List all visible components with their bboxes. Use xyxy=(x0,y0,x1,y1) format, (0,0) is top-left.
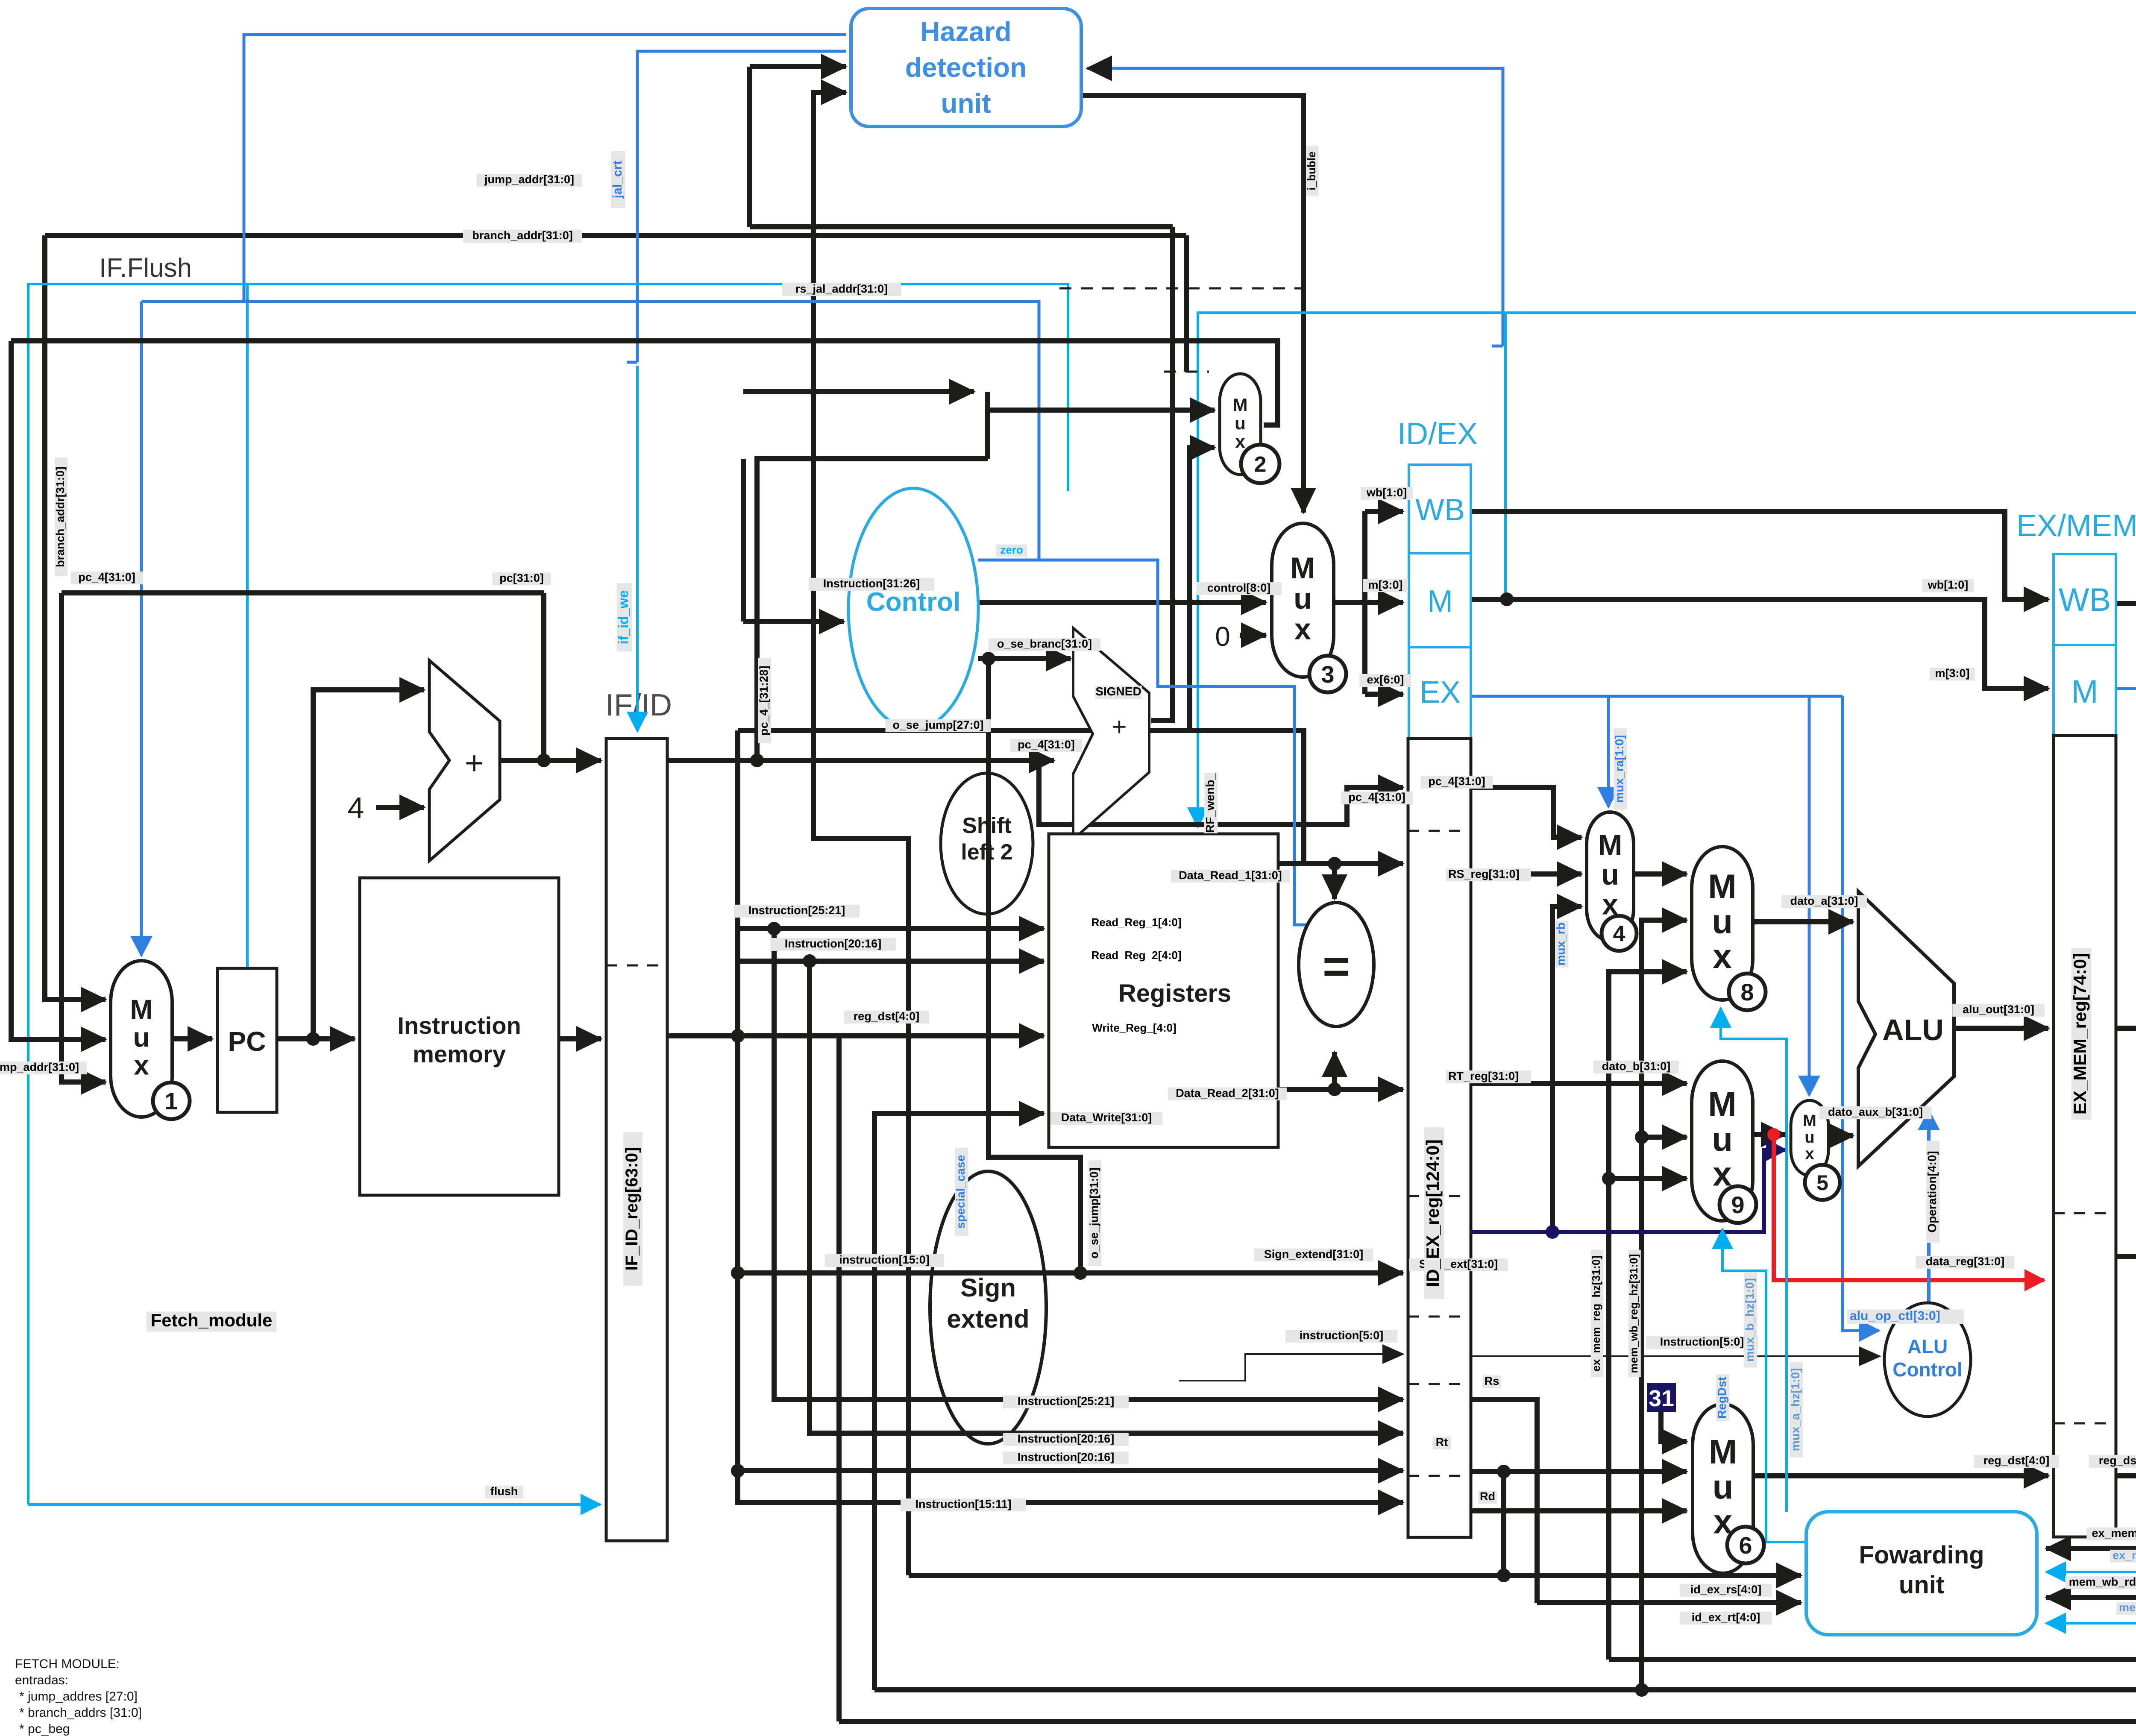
svg-text:jump_addr[31:0]: jump_addr[31:0] xyxy=(484,173,574,186)
svg-text:FETCH MODULE:: FETCH MODULE: xyxy=(15,1657,120,1671)
wire blue to Mux5 top xyxy=(1808,696,1811,1095)
svg-text:=: = xyxy=(1323,940,1350,993)
node dot 1727 y3443 xyxy=(731,1464,745,1478)
label Sign_extend xyxy=(1254,1248,1373,1261)
svg-text:* pc_beg: * pc_beg xyxy=(19,1722,70,1736)
wire Mux5 out to ALU xyxy=(1828,1133,1853,1138)
svg-text:4: 4 xyxy=(348,791,364,824)
wire cyan tap to ID/EX M y1403 xyxy=(1504,313,1507,596)
label mem_wb_rd xyxy=(2065,1575,2136,1589)
svg-text:Rd: Rd xyxy=(1480,1490,1495,1503)
svg-text:if_id_we: if_id_we xyxy=(616,590,631,644)
node branch label xyxy=(463,229,582,243)
svg-text:Instruction[20:16]: Instruction[20:16] xyxy=(785,937,882,950)
label wb idex xyxy=(1361,486,1413,500)
svg-text:pc_4[31:0]: pc_4[31:0] xyxy=(1018,738,1075,751)
svg-text:reg_dst[4:0]: reg_dst[4:0] xyxy=(2099,1454,2136,1467)
text Fetch_module xyxy=(147,1310,276,1332)
wire dr1 down to equals xyxy=(1332,864,1337,899)
label Rd xyxy=(1478,1490,1496,1504)
svg-text:i_buble: i_buble xyxy=(1305,151,1318,190)
svg-text:Operation[4:0]: Operation[4:0] xyxy=(1925,1151,1939,1232)
wire ex into EX box xyxy=(1365,692,1403,697)
svg-text:x: x xyxy=(134,1050,149,1081)
box WB idex xyxy=(1409,465,1471,553)
label Data_Read_2 xyxy=(1168,1087,1287,1100)
wire RS_reg to Mux4 xyxy=(1471,871,1581,877)
wire cyan into PC top xyxy=(246,284,249,967)
label id_ex_rt xyxy=(1680,1611,1772,1625)
alu shape xyxy=(1858,891,1954,1166)
svg-text:mem_wb_rd[4:0]: mem_wb_rd[4:0] xyxy=(2069,1575,2136,1588)
svg-text:detection: detection xyxy=(905,52,1027,83)
svg-text:pc_4[31:0]: pc_4[31:0] xyxy=(1428,775,1485,788)
fetch module text block xyxy=(15,1657,142,1736)
label ex_mem_wr_en xyxy=(2110,1549,2136,1563)
label pc[31:0] xyxy=(492,572,551,585)
wire Data_Read_2 xyxy=(1278,1087,1403,1092)
label m long xyxy=(1930,667,1975,680)
node dot navy join xyxy=(1546,1225,1559,1239)
wire Data_Read_1 xyxy=(1278,861,1403,866)
node dot pc out xyxy=(306,1032,320,1046)
label mem_wb_reg_hz xyxy=(1627,1250,1641,1378)
svg-text:data_reg[31:0]: data_reg[31:0] xyxy=(1926,1255,2005,1268)
svg-text:* branch_addrs [31:0]: * branch_addrs [31:0] xyxy=(19,1706,142,1720)
label Data_Write xyxy=(1050,1111,1163,1125)
svg-text:ID_EX_reg[124:0]: ID_EX_reg[124:0] xyxy=(1423,1139,1443,1287)
svg-text:Registers: Registers xyxy=(1118,979,1231,1007)
wire Operation from ALU Control xyxy=(1927,1111,1931,1303)
label Instruction 25:21 low xyxy=(1003,1395,1129,1408)
svg-text:EX_MEM_reg[74:0]: EX_MEM_reg[74:0] xyxy=(2070,953,2090,1114)
svg-text:u: u xyxy=(1713,1468,1734,1506)
sign extend ellipse xyxy=(930,1171,1046,1444)
svg-text:WB: WB xyxy=(1415,493,1465,527)
wire busC mem_wb_rd y4030 xyxy=(839,1719,2136,1724)
wire Instruction 25:21 read reg 1 xyxy=(739,926,1044,931)
svg-text:Rt: Rt xyxy=(1436,1436,1448,1449)
wire rs_jal lower run y551 xyxy=(45,233,1186,238)
svg-text:Control: Control xyxy=(1892,1358,1963,1381)
wire MEMWB reg_dst out xyxy=(2046,1476,2136,1598)
svg-text:M: M xyxy=(130,994,153,1025)
wire red data_reg xyxy=(1774,1135,2044,1280)
svg-text:x: x xyxy=(1805,1145,1814,1163)
svg-text:2: 2 xyxy=(1254,452,1267,477)
wire id_ex_rt to forwarding xyxy=(1537,1600,1801,1605)
wire m long to EX/MEM xyxy=(1471,599,2048,689)
label branch_addr vertical xyxy=(54,457,67,576)
wire Mux4 third input xyxy=(1552,906,1581,1232)
svg-text:instruction[15:0]: instruction[15:0] xyxy=(839,1253,930,1266)
wire RT_reg to Mux9 xyxy=(1471,1081,1687,1086)
label Instruction 25:21 top xyxy=(734,904,860,918)
wire 3766 to Mux9 in3 xyxy=(1609,1176,1687,1181)
label dato_aux_b xyxy=(1819,1106,1932,1119)
svg-text:Instruction[31:26]: Instruction[31:26] xyxy=(823,577,920,590)
svg-text:mux_rb: mux_rb xyxy=(1554,922,1567,965)
wire pc_4 branch down to ID_EX xyxy=(1039,760,1403,824)
label pc_4_[31:28] xyxy=(757,658,771,743)
label Instruction 20:16 low2 xyxy=(1003,1451,1129,1464)
label mux_rb xyxy=(1554,921,1568,967)
svg-text:pc_4[31:0]: pc_4[31:0] xyxy=(1348,791,1405,803)
wire o_se_jump path xyxy=(989,659,1080,1273)
svg-text:ex_mem_wr_en: ex_mem_wr_en xyxy=(2113,1549,2136,1562)
svg-text:mem_wb_wr_en: mem_wb_wr_en xyxy=(2119,1601,2136,1614)
wire rs_jal right vertical x2777 xyxy=(1184,235,1189,372)
svg-text:dato_b[31:0]: dato_b[31:0] xyxy=(1602,1060,1671,1073)
wire Mux6 out reg_dst xyxy=(1753,1473,2048,1478)
svg-text:Instruction[25:21]: Instruction[25:21] xyxy=(1018,1395,1115,1408)
svg-text:special_case: special_case xyxy=(954,1155,967,1229)
const 31 box xyxy=(1647,1383,1676,1412)
registers box rect xyxy=(1049,834,1278,1147)
wire wb into WB box xyxy=(1365,509,1403,514)
label wb long xyxy=(1922,578,1974,592)
mux Mux5 xyxy=(1791,1100,1840,1200)
label jump_addr floating xyxy=(477,173,582,187)
register PC xyxy=(217,968,277,1112)
label reg_dst near registers xyxy=(844,1010,929,1023)
svg-text:left 2: left 2 xyxy=(961,840,1012,865)
wire Mux8 out to ALU xyxy=(1753,919,1853,924)
label Data_Read_1 xyxy=(1171,869,1290,883)
wire 0 into Mux3 xyxy=(1240,633,1266,638)
svg-text:rs_jal_addr[31:0]: rs_jal_addr[31:0] xyxy=(795,282,888,295)
wire adder output to IF_ID xyxy=(500,758,601,763)
wire instruction15 sign extend y2980 xyxy=(738,1270,1403,1276)
svg-text:x: x xyxy=(1713,937,1732,975)
label Instruction 31:26 xyxy=(809,577,934,591)
svg-text:u: u xyxy=(1712,1120,1733,1158)
label dato_b xyxy=(1593,1060,1679,1073)
svg-text:pc[31:0]: pc[31:0] xyxy=(499,572,544,584)
svg-text:+: + xyxy=(1112,713,1127,741)
node dot 1892 xyxy=(803,954,816,968)
text Shift left 2 xyxy=(961,813,1012,865)
label special_case xyxy=(954,1148,968,1236)
svg-text:9: 9 xyxy=(1731,1191,1744,1218)
svg-text:Sign_extend[31:0]: Sign_extend[31:0] xyxy=(1264,1248,1364,1261)
label Read_Reg_1 xyxy=(1091,916,1182,929)
wire dashed y870 xyxy=(1164,371,1209,373)
svg-text:Instruction[5:0]: Instruction[5:0] xyxy=(1660,1335,1744,1348)
wire rt down to id_ex_rs bus xyxy=(1501,1472,1506,1575)
svg-text:RS_reg[31:0]: RS_reg[31:0] xyxy=(1448,868,1520,880)
svg-text:8: 8 xyxy=(1740,979,1754,1006)
svg-text:wb[1:0]: wb[1:0] xyxy=(1366,486,1407,499)
label ex idex xyxy=(1359,673,1411,687)
wire 4 into adder xyxy=(376,805,424,810)
label alu_op_ctl xyxy=(1847,1309,1964,1324)
wire vert 1740 xyxy=(741,459,746,622)
wire HDU output i_buble xyxy=(1081,96,1303,513)
svg-text:x: x xyxy=(1294,612,1311,645)
label instruction 5:0 xyxy=(1285,1329,1398,1343)
box WB exmem xyxy=(2054,554,2116,645)
wire Instruction 31:26 to Control xyxy=(743,619,844,624)
label Instruction 20:16 top xyxy=(770,937,896,951)
mux Mux3 xyxy=(1272,523,1346,692)
svg-text:x: x xyxy=(1235,431,1245,452)
wire id_ex_rs bus xyxy=(909,1573,1801,1578)
wire EXMEM WB out to MEMWB WB xyxy=(2116,604,2136,689)
label ID_EX_reg xyxy=(1423,1127,1444,1299)
svg-text:Hazard: Hazard xyxy=(920,16,1011,47)
wire jump_addr bus y798 xyxy=(11,341,1278,425)
wire Mux9 out to Mux5 xyxy=(1753,1132,1786,1137)
node dot busA tap xyxy=(1635,1683,1649,1697)
svg-text:alu_out[31:0]: alu_out[31:0] xyxy=(1963,1003,2034,1016)
svg-text:Read_Reg_2[4:0]: Read_Reg_2[4:0] xyxy=(1091,949,1182,962)
svg-text:M: M xyxy=(1708,868,1737,906)
wire alu_op_ctl xyxy=(1843,696,1879,1331)
label rs_jal_addr xyxy=(782,282,901,296)
label data_reg xyxy=(1916,1255,2014,1269)
svg-text:5: 5 xyxy=(1816,1171,1828,1195)
wire branch_addr vertical from HDU tap x1755 xyxy=(747,67,752,227)
wire vert 1892 to bus 3355 xyxy=(810,961,1403,1433)
svg-text:IF.Flush: IF.Flush xyxy=(99,253,192,283)
svg-text:jal_crt: jal_crt xyxy=(610,161,625,199)
wire pc vertical x1273 to adder out xyxy=(541,593,546,760)
control ellipse xyxy=(848,488,978,729)
signed adder xyxy=(1073,628,1149,839)
svg-text:u: u xyxy=(133,1022,150,1053)
svg-text:RF_wenb_: RF_wenb_ xyxy=(1203,773,1217,833)
wire navy dato_b bus xyxy=(1471,1150,1786,1232)
label EX_MEM_reg xyxy=(2070,948,2092,1120)
text Instruction memory xyxy=(397,1012,521,1067)
svg-text:6: 6 xyxy=(1739,1532,1752,1559)
svg-text:+: + xyxy=(465,745,484,781)
wire bus 3443 xyxy=(738,1468,1403,1473)
text ALU Control xyxy=(1892,1335,1963,1381)
wire rs_jal left vertical x105 to Mux1 input 1 xyxy=(45,235,106,1000)
label id_ex_rs xyxy=(1680,1583,1772,1597)
svg-text:id_ex_rt[4:0]: id_ex_rt[4:0] xyxy=(1692,1611,1760,1624)
wire pc4 up x1772 to Mux2 xyxy=(757,459,988,760)
node dot 1810 xyxy=(767,922,781,935)
label Operation xyxy=(1925,1141,1939,1243)
mux Mux8 xyxy=(1692,847,1766,1010)
wire Instruction 20:16 read reg 2 xyxy=(739,959,1044,964)
label mux_b_hz xyxy=(1743,1272,1757,1367)
label Read_Reg_2 xyxy=(1091,949,1182,962)
node dot 3766 y2759 xyxy=(1602,1172,1616,1185)
label RF_wenb_ xyxy=(1203,773,1218,833)
svg-text:branch_addr[31:0]: branch_addr[31:0] xyxy=(472,229,573,242)
label reg_dst 1 xyxy=(1974,1454,2059,1468)
wire Rs out xyxy=(1471,1399,1537,1603)
wire flush into IF_ID xyxy=(28,1503,600,1506)
wire wb long to EX/MEM xyxy=(1471,511,2048,599)
adder plus xyxy=(429,660,500,861)
node dot instr x1727 xyxy=(731,1029,745,1043)
svg-text:Data_Write[31:0]: Data_Write[31:0] xyxy=(1061,1111,1152,1124)
wire instr5 to ALU Control xyxy=(1471,1355,1880,1357)
label mux_ra xyxy=(1613,728,1627,810)
svg-text:ex_mem_rd[4:0]: ex_mem_rd[4:0] xyxy=(2092,1527,2136,1540)
wire branch vertical x2745 to SIGNED output xyxy=(1151,227,1173,721)
wire blue mem ctl bus xyxy=(2116,687,2136,690)
label zero xyxy=(996,543,1027,557)
svg-text:unit: unit xyxy=(1899,1571,1944,1599)
svg-text:extend: extend xyxy=(947,1305,1029,1333)
alu control ellipse xyxy=(1884,1303,1971,1416)
label alu_out xyxy=(1952,1003,2045,1017)
wire alu_out to Data memory addres xyxy=(2116,1026,2136,1031)
svg-text:0: 0 xyxy=(1215,621,1230,652)
box EX idex xyxy=(1409,647,1471,739)
node dot adder out xyxy=(537,754,551,767)
wire 31 to Mux6 xyxy=(1661,1410,1687,1442)
svg-text:alu_op_ctl[3:0]: alu_op_ctl[3:0] xyxy=(1850,1309,1940,1323)
wire blue jal bus y706 xyxy=(141,302,1039,560)
wire jal_crt end stub xyxy=(627,361,637,364)
label RegDst xyxy=(1715,1374,1729,1421)
wire jump to Mux1 input 3... left vertical x26 xyxy=(11,341,106,1039)
hazard detection unit xyxy=(851,9,1081,126)
wire control to Mux3 xyxy=(978,600,1266,605)
svg-text:wb[1:0]: wb[1:0] xyxy=(1928,578,1969,591)
wire cyan IF.Flush bus y665 xyxy=(28,284,1068,1504)
svg-text:EX/MEM: EX/MEM xyxy=(2016,509,2136,543)
wire busA writeback y3956 xyxy=(874,1687,2136,1692)
svg-text:ALU: ALU xyxy=(1882,1013,1944,1047)
svg-text:Instruction[20:16]: Instruction[20:16] xyxy=(1018,1451,1115,1463)
svg-text:u: u xyxy=(1601,859,1619,891)
wire 3858 to Mux9 in2 xyxy=(1642,1135,1687,1140)
equals ellipse xyxy=(1299,903,1374,1026)
wire o_se_branc from Control xyxy=(978,656,1071,661)
svg-text:Instruction[25:21]: Instruction[25:21] xyxy=(748,904,845,917)
mux Mux2 xyxy=(1220,374,1279,483)
svg-text:pc_4[31:0]: pc_4[31:0] xyxy=(78,571,135,584)
svg-text:M: M xyxy=(1233,395,1248,415)
node dot o_se_jump join xyxy=(1074,1266,1087,1280)
register ID_EX xyxy=(1408,739,1471,1537)
label jump_addr near mux1 xyxy=(0,1061,87,1074)
box M exmem xyxy=(2054,645,2116,736)
instruction memory xyxy=(360,878,559,1195)
wire EXMEM reg_dst out xyxy=(2116,1473,2136,1478)
shift left 2 ellipse xyxy=(941,773,1033,914)
label mux_a_hz xyxy=(1789,1362,1803,1457)
mux Mux4 xyxy=(1587,812,1637,951)
box M idex xyxy=(1409,553,1471,647)
svg-text:IF_ID_reg[63:0]: IF_ID_reg[63:0] xyxy=(622,1147,641,1271)
wire pc vertical x144 to Mux1 input jump xyxy=(62,593,106,1082)
label RT_reg xyxy=(1446,1070,1531,1083)
register IF_ID xyxy=(606,739,667,1541)
node dot 1727 y2980 xyxy=(731,1266,745,1280)
svg-text:ID/EX: ID/EX xyxy=(1397,417,1478,451)
svg-text:Shift: Shift xyxy=(962,813,1012,838)
wire instr5 into ID_EX xyxy=(1179,1354,1403,1381)
node dot pc4 second xyxy=(750,754,764,767)
wire Rd out to Mux6 xyxy=(1471,1508,1687,1513)
svg-text:mem_wb_reg_hz[31:0]: mem_wb_reg_hz[31:0] xyxy=(1627,1254,1640,1373)
svg-text:control[8:0]: control[8:0] xyxy=(1207,581,1271,594)
wire vert 1810 to bus 3276 xyxy=(774,929,1403,1399)
svg-text:M: M xyxy=(1803,1112,1816,1130)
wire write_data xyxy=(2116,1140,2136,1257)
svg-text:m[3:0]: m[3:0] xyxy=(1368,578,1402,591)
wire Mux4 out to Mux8 xyxy=(1634,871,1687,877)
label m idex xyxy=(1363,578,1408,592)
wire mux3 vert x3195 xyxy=(1362,511,1367,694)
label o_se_branc xyxy=(989,637,1101,651)
wire instr vertical x1727 xyxy=(738,730,1403,1502)
svg-text:dato_aux_b[31:0]: dato_aux_b[31:0] xyxy=(1828,1106,1923,1118)
label reg_dst 2 xyxy=(2089,1454,2136,1468)
wire rs to Mux2 upper xyxy=(743,389,974,394)
svg-text:instruction[5:0]: instruction[5:0] xyxy=(1300,1329,1384,1342)
svg-text:u: u xyxy=(1804,1129,1814,1147)
wire rs_jal vertical to Mux2 input 2 xyxy=(1190,448,1215,730)
wire ALU out to EX_MEM xyxy=(1954,1026,2048,1031)
svg-text:RT_reg[31:0]: RT_reg[31:0] xyxy=(1448,1070,1519,1082)
wire zero blue from Control to equals xyxy=(978,560,1317,925)
svg-text:RegDst: RegDst xyxy=(1715,1377,1728,1419)
node dot pc4 branch xyxy=(1032,754,1046,767)
wire dashed y675 xyxy=(1059,287,1303,290)
svg-text:SIGNED: SIGNED xyxy=(1095,685,1141,698)
wire Rt out to Mux6 xyxy=(1471,1469,1687,1474)
svg-text:M: M xyxy=(1427,584,1453,619)
label Rs xyxy=(1482,1375,1501,1388)
svg-text:ex_mem_reg_hz[31:0]: ex_mem_reg_hz[31:0] xyxy=(1590,1255,1602,1372)
svg-text:ALU: ALU xyxy=(1907,1335,1948,1358)
label ex_mem_rd xyxy=(2086,1527,2136,1540)
label mem_wb_wr_en xyxy=(2116,1601,2136,1615)
svg-text:Instruction[20:16]: Instruction[20:16] xyxy=(1018,1432,1115,1445)
svg-text:o_se_jump[27:0]: o_se_jump[27:0] xyxy=(892,718,983,731)
label i_buble xyxy=(1305,146,1319,196)
svg-text:unit: unit xyxy=(941,88,991,119)
svg-text:* jump_addres [27:0]: * jump_addres [27:0] xyxy=(19,1689,138,1704)
svg-text:Read_Reg_1[4:0]: Read_Reg_1[4:0] xyxy=(1091,916,1182,929)
mux Mux6 xyxy=(1693,1404,1764,1573)
svg-text:reg_dst[4:0]: reg_dst[4:0] xyxy=(1983,1454,2050,1467)
svg-text:Sign: Sign xyxy=(960,1273,1016,1302)
wire cyan mux_b_hz xyxy=(1722,1229,1806,1542)
wire pc_4 long to SIGNED adder xyxy=(667,758,1054,763)
svg-text:Write_Reg_[4:0]: Write_Reg_[4:0] xyxy=(1092,1021,1176,1034)
node dot 3858 y2679 xyxy=(1635,1130,1649,1144)
label SIGNED xyxy=(1095,685,1141,699)
text Sign extend xyxy=(947,1273,1029,1333)
svg-text:jump_addr[31:0]: jump_addr[31:0] xyxy=(0,1061,79,1073)
wire blue HDU right input y160 xyxy=(1087,68,1503,346)
wire Write_Reg vertical x1964 xyxy=(836,1036,842,1721)
svg-text:dato_a[31:0]: dato_a[31:0] xyxy=(1790,894,1858,907)
svg-text:1: 1 xyxy=(164,1088,178,1114)
node dot rt xyxy=(1497,1465,1511,1478)
node dot rs bus xyxy=(1497,1569,1511,1582)
node dot o_se jump tap xyxy=(982,652,995,666)
label Rt xyxy=(1432,1436,1451,1449)
forwarding unit xyxy=(1806,1512,2037,1635)
label jal_crt xyxy=(610,151,625,208)
svg-text:M: M xyxy=(1709,1433,1737,1471)
wire Mux2 input1 stub xyxy=(988,408,1215,413)
label pc_4 left xyxy=(71,571,143,584)
svg-text:Fowarding: Fowarding xyxy=(1859,1541,1984,1569)
